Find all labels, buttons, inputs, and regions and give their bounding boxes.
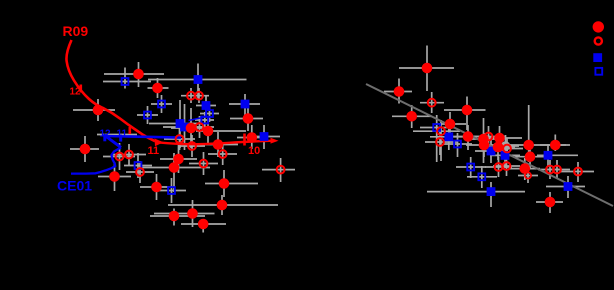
svg-text:12: 12 [100, 129, 112, 140]
svg-text:11: 11 [117, 129, 128, 140]
svg-text:R09: R09 [63, 23, 89, 39]
svg-text:10: 10 [248, 145, 260, 157]
svg-text:12: 12 [70, 87, 82, 98]
svg-text:11: 11 [148, 145, 160, 157]
svg-text:CE01: CE01 [57, 178, 92, 194]
